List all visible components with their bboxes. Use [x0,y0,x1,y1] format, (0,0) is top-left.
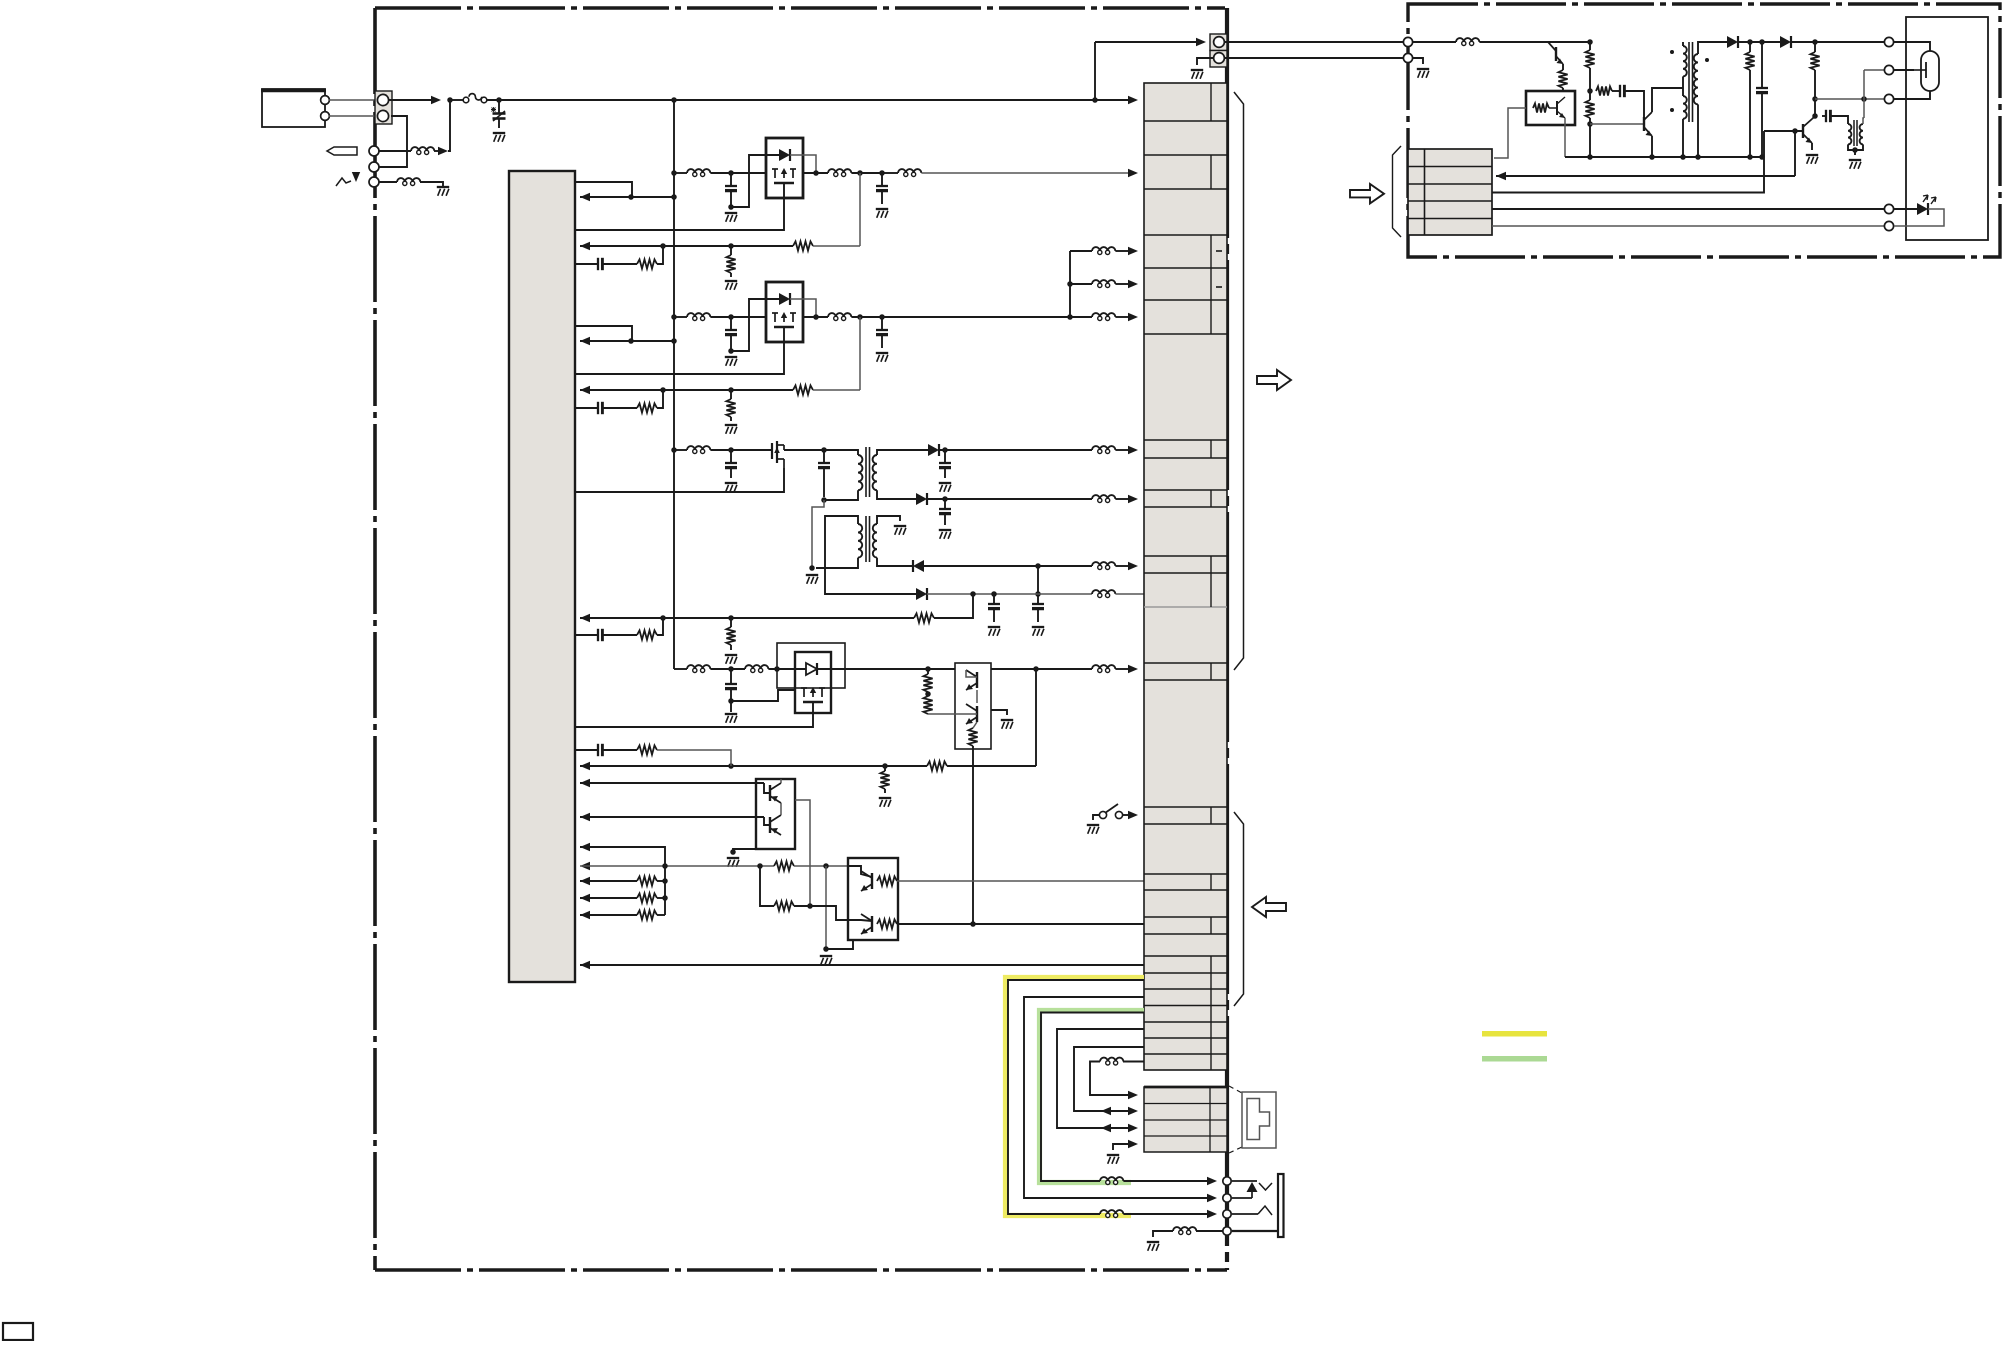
resistor R41 [923,674,932,692]
resistor R1a [793,241,813,250]
wire [1115,498,1131,500]
wire [813,389,860,391]
capacitor C1c [597,258,599,270]
wire [1115,316,1131,318]
wire [882,172,898,174]
LED D83 [1917,203,1928,215]
wire [944,467,946,478]
inductor L1c [904,172,908,176]
wire [881,317,883,330]
transistor Q4b [976,706,978,722]
wire [794,906,848,920]
capacitor C3b [818,462,830,464]
wire net d [1057,1029,1144,1128]
terminal lamp 2 [1884,65,1893,74]
wire [674,316,687,318]
wire [1863,70,1865,118]
wire inverter rail [1479,41,1590,43]
winding [858,455,862,490]
wire PC2 to connector [1494,108,1526,158]
wire riser to CN3 [1094,42,1096,100]
inductor L3c [1098,498,1102,502]
page corner box [3,1323,33,1340]
connector CN1 pin 2 [377,110,388,121]
lamp enclosure [1906,17,1988,240]
winding [1694,54,1698,104]
junction [823,946,829,952]
terminal LED cathode [1884,221,1893,230]
arrow into IC pin [580,614,590,622]
capacitor C83 [1825,110,1827,122]
photocoupler block PC1 outer [777,643,845,688]
wire [1697,104,1699,157]
lamp CCFL [1921,51,1939,91]
wire [1037,608,1039,622]
wire [657,246,663,264]
connector CN3 pin 2 [1214,53,1225,64]
wire green net [1041,1013,1144,1182]
transistor Q8 [1643,117,1645,131]
wire enable loop [575,326,632,341]
diode D34 [916,588,927,600]
ground [725,280,737,282]
wire [1589,68,1591,100]
highlight yellow wire [1006,978,1145,1216]
junction [728,170,734,176]
ground [1806,154,1818,156]
wire [851,172,882,174]
junction [879,314,885,320]
arrow into IC pin [580,779,590,787]
arrow into jack [1207,1177,1217,1185]
junction [809,565,815,571]
resistor R46 [637,745,657,754]
mosfet M2 [774,313,776,322]
wire lamp low side [1815,98,1884,100]
junction [728,243,734,249]
wire output 3C [924,565,1092,567]
DC input source block [262,89,325,127]
junction sense tap [857,170,863,176]
wire [580,847,665,866]
winding [873,455,877,490]
junction [925,666,931,672]
wire row2 [1496,175,1795,177]
wire [927,669,929,674]
junction bus row 2 [671,314,677,320]
wire [881,334,883,348]
transistor block Q4 body [955,663,991,749]
wire [1794,131,1796,176]
wire input+ [329,99,376,101]
winding [858,524,862,558]
wire feedback [580,765,927,767]
winding [873,524,877,558]
junction [1747,154,1753,160]
junction [813,314,819,320]
wire [877,490,916,499]
inductor L1b [834,172,838,176]
wire sense drop [859,173,861,246]
arrow into node [431,96,441,104]
legend yellow bar [1482,1031,1547,1037]
wire [1814,70,1816,116]
inductor L7g [1106,1180,1110,1184]
main board right edge (connector side) [1225,8,1229,1270]
junction [728,763,734,769]
wire [657,897,665,899]
resistor R81 [1558,70,1567,88]
wire source return to IC [575,327,784,374]
ground [939,482,951,484]
diode D1i [779,149,790,161]
diode D32 [916,493,927,505]
wire [991,710,1007,715]
wire [1761,92,1763,157]
ground [1001,719,1013,721]
wire [730,645,732,650]
terminal input+ [321,96,330,105]
inductor L1 [417,150,421,154]
inductor L3a [693,449,697,453]
wire arrow stem [355,172,357,179]
wire net e [1074,1047,1144,1111]
arrow into IC pin [580,961,590,969]
wire [580,782,764,784]
transistor Q4a [976,672,978,688]
wire middle net [1024,997,1210,1198]
resistor R45 [927,761,947,770]
wire row3 [1492,131,1764,193]
arrow into connector pin [1128,495,1138,503]
wire [657,750,731,766]
wire [1682,119,1684,157]
wire [1115,250,1131,252]
arrow into connector [1128,1091,1138,1099]
wire [1589,42,1591,50]
ground [988,626,1000,628]
resistor R86 [1745,52,1754,70]
wire [1894,69,1914,71]
junction [942,447,948,453]
wire yellow net [1008,980,1144,1214]
arrow into connector pin [1128,665,1138,673]
bracket harness group 2 [1234,812,1244,1006]
resistor R42 [923,696,932,714]
wire [379,150,411,152]
wire [1197,58,1213,65]
main power board boundary frame [375,8,1227,1270]
wire cap drop [730,173,732,186]
ground [876,208,888,210]
wire [1749,70,1751,157]
connector CN2 gray divider [1144,606,1227,608]
arrow into connector pin [1128,446,1138,454]
capacitor C3f [988,603,1000,605]
wire [733,849,762,852]
wire [944,450,946,463]
ground [879,797,891,799]
wire divider [760,866,774,906]
junction bus top [671,97,677,103]
arrow off-page left [1252,897,1286,917]
wire [379,181,397,183]
mosfet Q3 [771,443,773,459]
wire output 3A [939,449,1092,451]
arrow into connector pin [1128,247,1138,255]
wire LED loop [1894,209,1944,226]
ground [876,352,888,354]
resistor R31 [914,613,934,622]
transistor Q5a [769,785,771,801]
photocoupler PC2 body [1526,91,1575,125]
arrow into IC pin [580,762,590,770]
wire [602,263,637,265]
terminal lamp 3 [1884,94,1893,103]
junction [1092,97,1098,103]
resistor R2c [637,403,657,412]
arrow into connector pin 1 [1128,96,1138,104]
wire loop to input- [379,116,407,167]
wire [1562,88,1564,91]
network jack icon [1242,1092,1276,1148]
wire to connector [897,923,1144,925]
wire [580,897,637,899]
terminal LED anode [1884,204,1893,213]
transistor Q6a [871,873,873,889]
legend green bar [1482,1056,1547,1062]
wire [1682,42,1684,46]
wire cap drop [730,317,732,330]
inductor L2a [693,316,697,320]
wire base link [764,817,770,825]
junction [662,863,668,869]
arrow mid [1101,1107,1111,1115]
arrow mid [1101,1124,1111,1132]
junction [1759,154,1765,160]
wire [730,417,732,421]
resistor R44 [880,771,889,789]
junction [728,348,734,354]
wire [780,779,782,783]
wire [944,513,946,525]
resistor R83 [1585,50,1594,68]
wire VIN bus vertical [673,100,675,669]
wire [993,608,995,622]
terminal jack 2 [1223,1194,1231,1202]
wire [993,594,995,604]
arrow into VIN node [438,147,448,155]
capacitor C82 [1756,87,1768,89]
junction bus tap [671,194,677,200]
inductor L2d [1098,283,1102,287]
inductor L2b [834,316,838,320]
wire [825,866,827,949]
junction [728,698,734,704]
bracket harness group 1 [1234,92,1244,670]
wire [1811,143,1813,150]
inverter terminal 1 [1403,37,1412,46]
arrow into connector pin [1128,562,1138,570]
AV jack body [1278,1174,1284,1237]
highlight green wire [1040,1011,1145,1183]
junction [813,170,819,176]
wire Q5 output drop [795,800,810,906]
photocoupler block PC1 inner [795,652,831,713]
inductor L7y [1106,1213,1110,1217]
wire [1894,42,1930,51]
junction [925,691,931,697]
winding [1860,124,1863,144]
wire base [1764,130,1803,132]
capacitor C2b [876,329,888,331]
junction [1033,666,1039,672]
ground switch [1087,824,1099,826]
wire [730,689,732,712]
diode D31 [928,444,939,456]
wire [1413,58,1423,64]
wire input- [329,115,376,117]
winding [1683,96,1687,119]
wire aux return [812,500,824,568]
junction [1587,121,1593,127]
inductor L2c [1098,250,1102,254]
wire [580,865,774,867]
wire lamp HV [1791,41,1884,43]
wire net f [1090,1062,1131,1096]
connector CN2 keying marks [1216,250,1222,252]
surge absorber Z1 [498,100,500,113]
wire base link [764,783,770,793]
wire drain rail [784,449,824,451]
border terminal B [369,162,379,172]
inductor L7h [1179,1230,1183,1234]
arrow into jack [1207,1210,1217,1218]
wire [1864,69,1884,71]
wire resistor bus [664,866,666,915]
wire [730,450,732,463]
resistor R53 [877,876,897,885]
junction [728,387,734,393]
wire [1115,449,1131,451]
capacitor C3e [1032,603,1044,605]
wire [1070,283,1092,285]
wire [434,150,441,152]
arrow into IC pin [580,843,590,851]
junction [1852,147,1858,153]
wire [1894,91,1930,99]
wire [845,668,955,670]
wire comp pin [575,407,598,409]
resistor R1b [726,255,735,273]
arrow into IC pin [580,877,590,885]
wire [1123,1213,1210,1215]
wire [1863,118,1864,124]
transformer T1b core [865,516,867,562]
resistor R52 [774,901,794,910]
inverter board boundary frame [1408,4,2000,257]
wire [1589,118,1591,157]
wire gate feed [731,299,779,351]
junction varistor tap [496,97,502,103]
AV jack V mark [1259,1183,1272,1190]
wire [710,172,766,174]
resistor R2a [793,385,813,394]
fuse F1 [463,97,469,103]
wire [1822,115,1826,117]
phase dot [1670,50,1674,54]
junction [1695,154,1701,160]
diode D41 (LED) [806,663,817,675]
wire base [928,713,977,715]
wire [1123,1061,1144,1063]
wire [674,172,687,174]
arrow into IC pin EN [580,337,590,345]
wire long signal [580,964,1144,966]
ground varistor [493,132,505,134]
wire enable loop [575,182,632,197]
wire [710,668,745,670]
wire [823,450,825,463]
wire [1894,208,1917,210]
junction sense tap [857,314,863,320]
wire [1812,116,1815,119]
wire [1761,42,1763,88]
resistor R85 [1596,86,1612,95]
wire [1854,150,1856,155]
wire feedback [580,389,793,391]
ground [725,356,737,358]
wire riser to VIN [448,100,450,151]
inductor L4c [1098,668,1102,672]
wire [817,668,845,670]
wire [580,340,674,342]
AV jack wire 1 [1232,1180,1257,1182]
wire [657,618,663,635]
junction [1812,113,1818,119]
junction bus row 3 [671,447,677,453]
junction [660,243,666,249]
wire [944,499,946,509]
ground [725,482,737,484]
wire aux tap [825,516,916,594]
resistor R33 [637,630,657,639]
junction [1035,591,1041,597]
wire base drive [1590,123,1644,125]
wire [580,914,637,916]
connector CN3 body [1210,34,1227,51]
wire [602,749,637,751]
arrow into IC pin [580,894,590,902]
inductor L2e [1098,316,1102,320]
connector CN5 dividers [1408,166,1492,168]
capacitor C81 [1619,85,1621,97]
wire [816,558,858,568]
wire [934,594,973,618]
wire [1153,1231,1173,1237]
wire [1115,283,1131,285]
junction [662,895,668,901]
arrow into IC pin [580,911,590,919]
ground [939,529,951,531]
junction [821,447,827,453]
network jack icon plug [1247,1099,1270,1140]
transistor Q9 [1802,124,1804,138]
junction [1812,39,1818,45]
arrow into CN3 [1196,38,1206,46]
inductor L8 [1462,41,1466,45]
capacitor C3c [939,462,951,464]
